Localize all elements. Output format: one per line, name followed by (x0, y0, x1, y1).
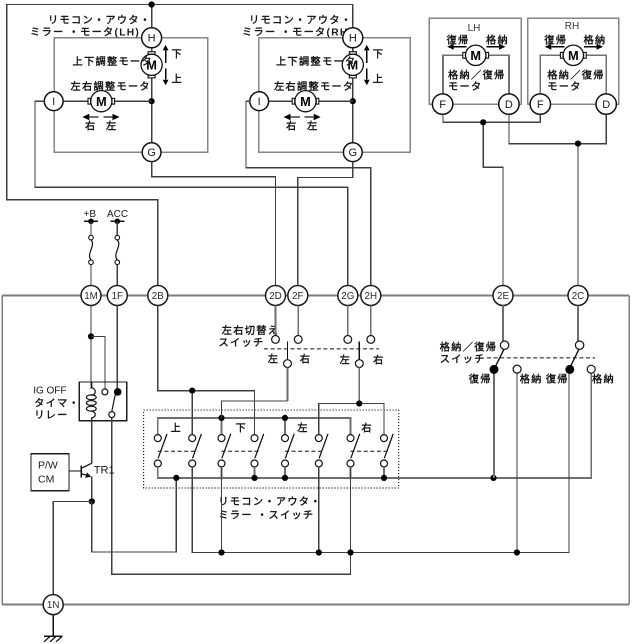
svg-text:2G: 2G (341, 291, 354, 302)
box IG OFF タイマ・リレー relay RL1 (79, 382, 126, 421)
svg-text:左: 左 (105, 120, 118, 133)
svg-text:復帰: 復帰 (545, 373, 569, 386)
box リモコン・アウタ・ミラー・モータ(RH) (259, 38, 411, 152)
switch S下a contacts and lever (218, 435, 225, 442)
svg-text:TR1: TR1 (94, 464, 115, 476)
bottom ground rail (2, 604, 629, 606)
svg-text:リレー: リレー (34, 410, 68, 422)
box P/W CM (31, 454, 69, 491)
svg-text:格納／復帰: 格納／復帰 (448, 68, 505, 81)
connector 1N (43, 595, 63, 615)
wire 2G to contact (347, 306, 349, 336)
arrow 復帰 RH (551, 46, 564, 48)
wire selector right to 左b/右b (358, 368, 360, 404)
selector lever right pair (358, 341, 360, 360)
wire contact stub to common bus (221, 467, 223, 478)
svg-text:D: D (505, 99, 513, 111)
arrow 復帰 LH (454, 46, 467, 48)
svg-text:復帰: 復帰 (468, 373, 492, 386)
dashed switch centerline (158, 450, 198, 452)
wire RH G to 2F (298, 162, 353, 286)
node common bus TR1 riser (173, 475, 179, 481)
terminal ACC (110, 220, 124, 222)
node top junction at LH H (149, 1, 155, 7)
svg-text:左右調整モータ: 左右調整モータ (273, 80, 354, 93)
motor M1 up-down LH (148, 52, 155, 54)
svg-text:上下調整モータ: 上下調整モータ (73, 55, 153, 68)
svg-text:1F: 1F (112, 291, 123, 302)
selector pivot left (284, 360, 292, 368)
wire 格納1 drop to net B (516, 373, 518, 553)
wire RH I to 2H (246, 101, 371, 285)
svg-text:復帰: 復帰 (543, 33, 567, 46)
pivot 2E (500, 341, 508, 349)
motor M4 left-right RH (292, 98, 295, 104)
connector 2B (148, 286, 168, 306)
lever 2C to 復帰 (571, 350, 579, 367)
wire 右a to net B (350, 467, 352, 553)
svg-text:下: 下 (373, 48, 385, 60)
svg-text:2E: 2E (497, 291, 509, 302)
wire 2F to contact (297, 306, 299, 336)
motor M2 left-right LH (88, 98, 91, 104)
selector lever left pair (287, 341, 289, 360)
connector 1M (81, 286, 101, 306)
dashed selector centerline left (264, 348, 379, 350)
svg-text:タイマ・: タイマ・ (34, 398, 80, 410)
wire D-D net to 2C (509, 114, 606, 143)
wire 2B to switch 上b/下b (158, 306, 255, 435)
node selector right junction (356, 400, 362, 406)
svg-text:左右調整モータ: 左右調整モータ (70, 80, 151, 93)
node top bus at 左 (282, 415, 288, 421)
wire retract motor LH to F and D (443, 55, 463, 114)
selector pivot right (355, 360, 363, 368)
wire contact stub to common bus (383, 467, 385, 478)
wire LH I to M (63, 100, 88, 102)
svg-text:M: M (300, 94, 311, 109)
svg-text:ミラー ・モータ(RH): ミラー ・モータ(RH) (242, 27, 353, 39)
terminal G RH (343, 143, 362, 162)
terminal H RH (343, 28, 363, 48)
wire RH I to M (269, 100, 293, 102)
contact 復帰2 (565, 365, 574, 374)
svg-text:M: M (96, 94, 107, 109)
dashed switch centerline (222, 450, 261, 452)
svg-text:RH: RH (565, 21, 579, 32)
svg-text:リモコン・アウタ・: リモコン・アウタ・ (218, 496, 321, 508)
terminal D RH (596, 94, 616, 114)
svg-text:格納: 格納 (520, 373, 543, 386)
connector 2G (338, 286, 358, 306)
switch S上b contacts and lever (189, 435, 196, 442)
contact 2H 右 (367, 336, 375, 344)
svg-text:P/W: P/W (38, 459, 58, 471)
svg-text:F: F (537, 99, 544, 111)
wire ACC to fuse to 1F (116, 221, 118, 235)
svg-text:格納: 格納 (486, 33, 509, 46)
connector 2C (568, 286, 588, 306)
fuse F2 (115, 235, 120, 240)
wire switch common bus (158, 373, 591, 478)
svg-text:復帰: 復帰 (446, 33, 470, 46)
svg-text:スイッチ: スイッチ (440, 354, 486, 366)
wire LH I to 2G (35, 101, 348, 285)
wire TR1 emitter down (91, 477, 93, 502)
connector 1F (107, 286, 127, 306)
terminal +B (84, 220, 98, 222)
svg-text:H: H (148, 33, 156, 45)
connector 2F (288, 286, 308, 306)
terminal I RH (250, 92, 269, 111)
svg-text:格納／復帰: 格納／復帰 (440, 341, 497, 354)
wire 復帰1 drop (493, 374, 495, 478)
svg-text:2F: 2F (292, 291, 303, 302)
relay lever (112, 389, 117, 411)
svg-text:H: H (349, 33, 357, 45)
node 1M branch (88, 333, 94, 339)
fuse F1 (89, 235, 94, 240)
arrow 格納 RH (584, 46, 597, 48)
svg-text:1M: 1M (84, 291, 98, 302)
ground (44, 635, 62, 637)
svg-text:ACC: ACC (107, 209, 128, 220)
arrow 格納 LH (486, 46, 499, 48)
wire +B to fuse to 1M (90, 221, 92, 235)
svg-text:上下調整モータ: 上下調整モータ (276, 55, 356, 68)
svg-text:下: 下 (172, 48, 184, 60)
box リモコン・アウタ・ミラー・スイッチ (144, 410, 399, 488)
wire 左b to net B (318, 467, 320, 553)
node common bus 左a (282, 475, 288, 481)
node net B 下a (218, 549, 224, 555)
wire retract motor RH to F and D (540, 55, 560, 114)
dashed switch centerline (285, 450, 324, 452)
wire net B lower bus (192, 373, 569, 553)
wire 1M to relay coil (90, 306, 92, 390)
svg-text:格納: 格納 (592, 373, 615, 386)
wire LH H stub (151, 5, 153, 28)
node 2B branch 上b (189, 388, 195, 394)
svg-text:格納: 格納 (584, 33, 607, 46)
dashed switch centerline (351, 450, 390, 452)
node net B 右a relay (347, 549, 353, 555)
motor M5 retract LH (463, 52, 466, 58)
node F net junction (480, 119, 486, 125)
wire contact stub to common bus (284, 467, 286, 478)
wire relay coil to TR1 collector (91, 421, 93, 463)
wire 下a to net B (221, 467, 223, 553)
motor M3 up-down RH (349, 52, 356, 54)
arrow 下/上 RH (366, 50, 368, 63)
svg-text:下: 下 (236, 422, 248, 434)
svg-text:2C: 2C (572, 291, 585, 302)
svg-text:2B: 2B (152, 291, 164, 302)
svg-text:左: 左 (296, 421, 309, 434)
terminal H LH (142, 28, 162, 48)
contact 格納1 (513, 365, 521, 373)
motor M6 retract RH (560, 52, 563, 58)
node net B 左b (316, 549, 322, 555)
wire 2B riser to top (7, 5, 353, 286)
svg-text:2H: 2H (365, 291, 378, 302)
relay contact fixed open (102, 389, 108, 395)
switch S上a contacts and lever (154, 435, 161, 442)
box 格納/復帰モータ LH (429, 18, 521, 104)
svg-text:リモコン・アウタ・: リモコン・アウタ・ (48, 15, 151, 27)
node common bus 右b (381, 475, 387, 481)
wire 1F to relay contact (116, 306, 118, 389)
contact 2F 右 (294, 336, 302, 344)
node LH vertical junction (149, 98, 155, 104)
switch S右b contacts and lever (381, 435, 388, 442)
svg-text:CM: CM (38, 473, 54, 485)
svg-text:1N: 1N (47, 600, 60, 611)
svg-text:モータ: モータ (547, 81, 581, 93)
node RH vertical junction (350, 98, 356, 104)
svg-text:G: G (349, 147, 358, 159)
svg-text:LH: LH (468, 23, 481, 34)
connector 2D (266, 286, 286, 306)
svg-text:スイッチ: スイッチ (219, 337, 265, 349)
wire F-F net to 2E (443, 114, 540, 122)
wire branch to relay contact (91, 336, 105, 388)
svg-text:右: 右 (373, 353, 385, 366)
node top bus at 下 (218, 415, 224, 421)
svg-text:上: 上 (172, 72, 184, 85)
switch S左b contacts and lever (315, 435, 322, 442)
svg-text:モータ: モータ (448, 81, 482, 93)
svg-text:左: 左 (339, 353, 352, 366)
svg-text:左: 左 (267, 353, 280, 366)
transistor Q1 TR1 (69, 470, 81, 472)
node D net junction (575, 141, 581, 147)
svg-text:D: D (602, 99, 610, 111)
dashed centerline (487, 357, 595, 359)
svg-text:I: I (52, 96, 55, 108)
wire H to M to G vertical LH (151, 48, 153, 52)
left frame rail (1, 296, 3, 605)
switch S右a contacts and lever (347, 435, 354, 442)
ground stem (52, 615, 54, 637)
relay contact movable (109, 412, 115, 418)
terminal D LH (499, 94, 519, 114)
wire 2E to pivot (502, 306, 504, 342)
svg-text:+B: +B (84, 209, 97, 220)
svg-text:G: G (147, 147, 156, 159)
wire to ground connector 1N (53, 502, 92, 595)
main connector bus line (2, 295, 629, 297)
arrow 下/上 LH (165, 50, 167, 63)
wire emitter to switch common (92, 478, 177, 552)
pivot 2C (575, 341, 583, 349)
node common bus 復帰1 (490, 475, 496, 481)
svg-text:右: 右 (300, 353, 312, 366)
svg-text:M: M (568, 48, 579, 63)
svg-text:右: 右 (85, 120, 97, 133)
svg-text:左右切替え: 左右切替え (221, 324, 279, 337)
node common bus 下b (251, 475, 257, 481)
terminal I LH (44, 92, 63, 111)
wire 2C to pivot (577, 306, 579, 342)
relay coil (92, 382, 96, 396)
svg-text:上: 上 (171, 421, 183, 434)
terminal G LH (142, 143, 161, 162)
wire 2D to contact (275, 306, 277, 336)
svg-text:上: 上 (373, 72, 385, 85)
svg-text:左: 左 (306, 120, 319, 133)
switch S左a contacts and lever (282, 435, 289, 442)
arrow 右/左 LH (89, 116, 98, 118)
contact 2D 左 (272, 336, 280, 344)
svg-text:M: M (470, 48, 481, 63)
wire H to M to G vertical RH (352, 48, 354, 52)
box 格納/復帰モータ RH (528, 18, 619, 104)
node emitter junction (89, 498, 95, 504)
relay contact fixed closed (114, 388, 122, 396)
right frame rail (628, 296, 630, 605)
node net B 格納1 (514, 549, 520, 555)
wire contact stub to common bus (254, 467, 256, 478)
svg-text:右: 右 (286, 120, 298, 133)
wire LH G to 2D (152, 162, 276, 286)
svg-text:F: F (439, 99, 446, 111)
svg-text:格納／復帰: 格納／復帰 (547, 68, 604, 81)
wire selector left to top bus (287, 368, 289, 402)
svg-text:I: I (258, 96, 261, 108)
svg-text:ミラー ・スイッチ: ミラー ・スイッチ (218, 510, 314, 522)
box リモコン・アウタ・ミラー・モータ(LH) (54, 38, 208, 152)
contact 復帰1 (490, 365, 499, 374)
contact 2G 左 (344, 336, 352, 344)
svg-text:IG OFF: IG OFF (33, 385, 66, 396)
svg-text:リモコン・アウタ・: リモコン・アウタ・ (249, 15, 352, 27)
connector 2E (493, 286, 513, 306)
lever 2E to 復帰 (496, 350, 504, 367)
svg-text:2D: 2D (269, 291, 282, 302)
switch S下b contacts and lever (251, 435, 258, 442)
arrow 右/左 RH (291, 116, 300, 118)
wire 2H to contact (370, 306, 372, 336)
terminal F LH (432, 94, 452, 114)
contact 格納2 (587, 365, 595, 373)
connector 2H (361, 286, 381, 306)
svg-text:ミラー ・モータ(LH): ミラー ・モータ(LH) (30, 27, 140, 39)
wire switch internal top bus (158, 418, 351, 435)
svg-text:右: 右 (361, 421, 373, 434)
wire relay lever output (112, 418, 351, 575)
wire contact stub to common bus (350, 467, 352, 478)
terminal F RH (530, 94, 550, 114)
